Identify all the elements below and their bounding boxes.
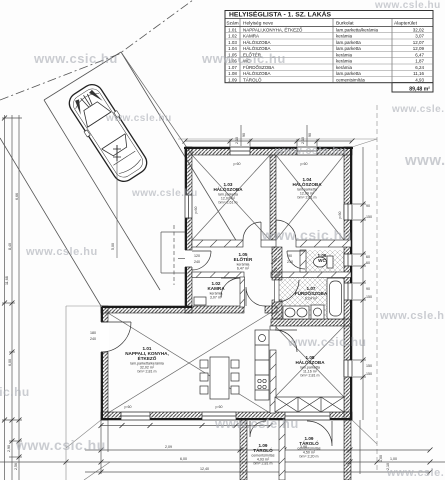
- svg-text:6,66: 6,66: [15, 193, 19, 200]
- svg-text:lam.parketta: lam.parketta: [336, 40, 361, 45]
- svg-text:89,48 m²: 89,48 m²: [409, 86, 430, 92]
- svg-text:90: 90: [242, 133, 246, 137]
- svg-text:bm= 2,61 m: bm= 2,61 m: [297, 196, 316, 200]
- svg-text:2,10: 2,10: [301, 137, 305, 144]
- svg-text:TÁROLÓ: TÁROLÓ: [253, 446, 273, 453]
- svg-text:HÁLÓSZOBA: HÁLÓSZOBA: [243, 70, 271, 76]
- svg-text:1.03: 1.03: [228, 40, 237, 45]
- svg-text:11,16: 11,16: [413, 71, 424, 76]
- svg-text:6,47 m²: 6,47 m²: [237, 267, 250, 271]
- svg-text:NAPPALI,KONYHA, ÉTKEZŐ: NAPPALI,KONYHA, ÉTKEZŐ: [243, 26, 303, 32]
- svg-text:90: 90: [308, 133, 312, 137]
- svg-text:bm= 2,61 m: bm= 2,61 m: [218, 201, 237, 205]
- svg-text:www.csle.hu: www.csle.hu: [374, 0, 441, 11]
- svg-text:kerámia: kerámia: [336, 34, 353, 39]
- svg-text:www.csle.hu: www.csle.hu: [391, 104, 445, 115]
- svg-text:1,00: 1,00: [390, 457, 397, 461]
- svg-text:p 60: p 60: [194, 207, 198, 214]
- svg-text:www.csic.hu: www.csic.hu: [0, 385, 30, 399]
- svg-text:p 60: p 60: [125, 405, 132, 409]
- svg-text:www.csic.hu: www.csic.hu: [15, 437, 106, 453]
- svg-text:Burkolat: Burkolat: [336, 21, 354, 27]
- svg-text:p 60: p 60: [338, 212, 342, 219]
- svg-text:6,24: 6,24: [415, 65, 424, 70]
- svg-text:32,02: 32,02: [413, 27, 425, 32]
- svg-text:ELŐTÉR: ELŐTÉR: [234, 255, 253, 262]
- svg-text:150: 150: [366, 215, 372, 219]
- svg-text:p 60: p 60: [216, 405, 223, 409]
- svg-text:bm= 2,81 m: bm= 2,81 m: [137, 370, 156, 374]
- svg-text:210: 210: [287, 260, 293, 264]
- svg-text:150: 150: [366, 364, 372, 368]
- svg-text:www.csic.hu: www.csic.hu: [201, 51, 286, 66]
- svg-text:www.csle.hu: www.csle.hu: [274, 145, 347, 157]
- svg-text:p 60: p 60: [301, 162, 308, 166]
- svg-text:240: 240: [194, 260, 200, 264]
- svg-text:FÜRDŐSZOBA: FÜRDŐSZOBA: [295, 290, 328, 296]
- svg-text:60: 60: [366, 255, 370, 259]
- svg-text:HÁLÓSZOBA: HÁLÓSZOBA: [243, 39, 271, 45]
- svg-text:Alapterület: Alapterület: [394, 21, 418, 27]
- svg-text:bm= 2,81 m: bm= 2,81 m: [300, 374, 319, 378]
- svg-text:www.csic.hu: www.csic.hu: [33, 51, 118, 66]
- svg-text:WC: WC: [318, 258, 326, 263]
- svg-text:3,07: 3,07: [415, 34, 424, 39]
- svg-text:www.csle.hu: www.csle.hu: [214, 416, 299, 431]
- svg-text:12,07: 12,07: [413, 40, 425, 45]
- svg-text:1.08: 1.08: [228, 71, 237, 76]
- svg-text:kerámia: kerámia: [336, 59, 353, 64]
- svg-text:Szám: Szám: [226, 21, 238, 27]
- svg-text:KAMRA: KAMRA: [207, 286, 225, 291]
- svg-text:1.09: 1.09: [228, 77, 237, 82]
- svg-text:HÁLÓSZOBA: HÁLÓSZOBA: [292, 180, 322, 187]
- svg-text:TÁROLÓ: TÁROLÓ: [243, 76, 262, 82]
- svg-text:lam.parketta: lam.parketta: [336, 46, 361, 51]
- svg-text:TÁROLÓ: TÁROLÓ: [299, 439, 319, 446]
- svg-text:www.csle.hu: www.csle.hu: [386, 467, 445, 479]
- svg-text:p 60: p 60: [234, 162, 241, 166]
- svg-text:HÁLÓSZOBA: HÁLÓSZOBA: [213, 185, 243, 192]
- svg-text:150: 150: [366, 372, 372, 376]
- svg-text:Helyiség neve: Helyiség neve: [243, 21, 273, 27]
- svg-text:6,00: 6,00: [180, 457, 187, 461]
- svg-text:3,07 m²: 3,07 m²: [210, 296, 223, 300]
- svg-text:www.csle.hu: www.csle.hu: [131, 188, 198, 199]
- svg-text:1,00: 1,00: [379, 455, 383, 462]
- svg-text:kerámia: kerámia: [336, 52, 353, 57]
- svg-text:HÁLÓSZOBA: HÁLÓSZOBA: [295, 358, 325, 365]
- svg-text:1,87: 1,87: [415, 59, 424, 64]
- svg-text:www.csle.hu: www.csle.hu: [105, 113, 172, 124]
- svg-text:KAMRA: KAMRA: [243, 34, 259, 39]
- svg-text:120: 120: [194, 254, 200, 258]
- svg-text:lam.parketta/kerámia: lam.parketta/kerámia: [336, 27, 379, 32]
- svg-text:ÉTKEZŐ: ÉTKEZŐ: [138, 354, 157, 361]
- svg-text:lam.parketta: lam.parketta: [336, 71, 361, 76]
- svg-text:2,10: 2,10: [235, 137, 239, 144]
- svg-text:2,56: 2,56: [14, 463, 18, 470]
- svg-text:2,90: 2,90: [7, 445, 11, 452]
- svg-text:12,09: 12,09: [413, 46, 425, 51]
- svg-text:2,09: 2,09: [165, 445, 172, 449]
- svg-text:www.csic.hu: www.csic.hu: [404, 152, 445, 169]
- svg-text:www.csic.hu: www.csic.hu: [261, 227, 352, 243]
- svg-text:www.csle.hu: www.csle.hu: [25, 246, 98, 258]
- svg-text:90: 90: [366, 287, 370, 291]
- svg-text:bm= 2,20 m: bm= 2,20 m: [299, 455, 318, 459]
- svg-text:8,40: 8,40: [8, 243, 12, 250]
- svg-text:HELYISÉGLISTA - 1. SZ. LAKÁS: HELYISÉGLISTA - 1. SZ. LAKÁS: [229, 10, 332, 19]
- svg-text:60: 60: [366, 261, 370, 265]
- svg-text:6,00: 6,00: [8, 359, 12, 366]
- svg-text:kerámia: kerámia: [336, 65, 353, 70]
- svg-text:90: 90: [288, 254, 292, 258]
- svg-text:1.02: 1.02: [228, 34, 237, 39]
- svg-text:www.csle.hu: www.csle.hu: [379, 310, 445, 322]
- svg-text:12,40: 12,40: [200, 467, 209, 471]
- svg-text:5,00: 5,00: [111, 243, 115, 250]
- svg-text:cementsimítás: cementsimítás: [336, 77, 366, 82]
- svg-text:90: 90: [366, 204, 370, 208]
- svg-text:1.01: 1.01: [228, 27, 237, 32]
- svg-text:150: 150: [366, 295, 372, 299]
- svg-text:bm= 2,81 m: bm= 2,81 m: [253, 462, 272, 466]
- svg-text:11,68: 11,68: [5, 276, 9, 285]
- svg-text:6,47: 6,47: [415, 52, 424, 57]
- svg-text:240: 240: [90, 337, 96, 341]
- svg-text:www.csio.hu: www.csio.hu: [287, 335, 366, 349]
- svg-text:4,93: 4,93: [415, 77, 424, 82]
- svg-text:6,24 m²: 6,24 m²: [305, 297, 318, 301]
- svg-text:180: 180: [90, 331, 96, 335]
